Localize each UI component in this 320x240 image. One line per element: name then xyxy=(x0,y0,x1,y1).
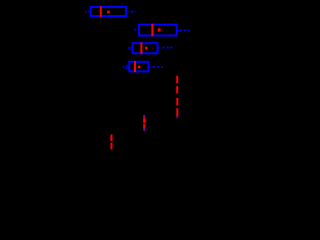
boxplot 4 mean marker xyxy=(138,66,141,69)
boxplot 4 left whisker cap xyxy=(126,65,128,69)
boxplot 1 box xyxy=(91,7,126,16)
boxplot 2 box xyxy=(139,25,177,36)
boxplot 2 mean marker xyxy=(158,28,161,31)
boxplot 3 mean marker xyxy=(145,47,148,50)
boxplot 3 right whisker dashes xyxy=(159,47,173,49)
boxplot 3 left whisker dash xyxy=(130,47,131,49)
boxplot 1 left whisker dash xyxy=(88,11,89,13)
boxplot 1 mean marker xyxy=(107,11,110,14)
boxplot 3 box xyxy=(133,43,158,53)
boxplot 1 median xyxy=(100,6,102,17)
boxplot 1 left whisker cap xyxy=(85,10,87,12)
collapsed boxplot 5: red dashed vertical bar xyxy=(176,76,178,94)
boxplot 3 median xyxy=(140,43,142,55)
boxplot 4 left flier point xyxy=(123,66,125,68)
collapsed boxplot 8: red dashed vertical bar xyxy=(110,134,113,149)
boxplot 2 left whisker cap xyxy=(134,29,136,31)
boxplot 2 right whisker dashes xyxy=(178,29,189,31)
boxplot 4 box xyxy=(129,62,148,72)
collapsed boxplot 7: red dashed vertical bar xyxy=(143,115,146,131)
boxplot 4 right whisker dashes xyxy=(149,66,162,68)
boxplot 3 left whisker cap xyxy=(128,47,130,49)
collapsed boxplot 6: red dashed vertical bar xyxy=(176,98,178,118)
boxplot 4 median xyxy=(134,61,136,72)
boxplot 1 right whisker dashes xyxy=(129,11,136,13)
boxplot 2 median xyxy=(151,24,153,37)
